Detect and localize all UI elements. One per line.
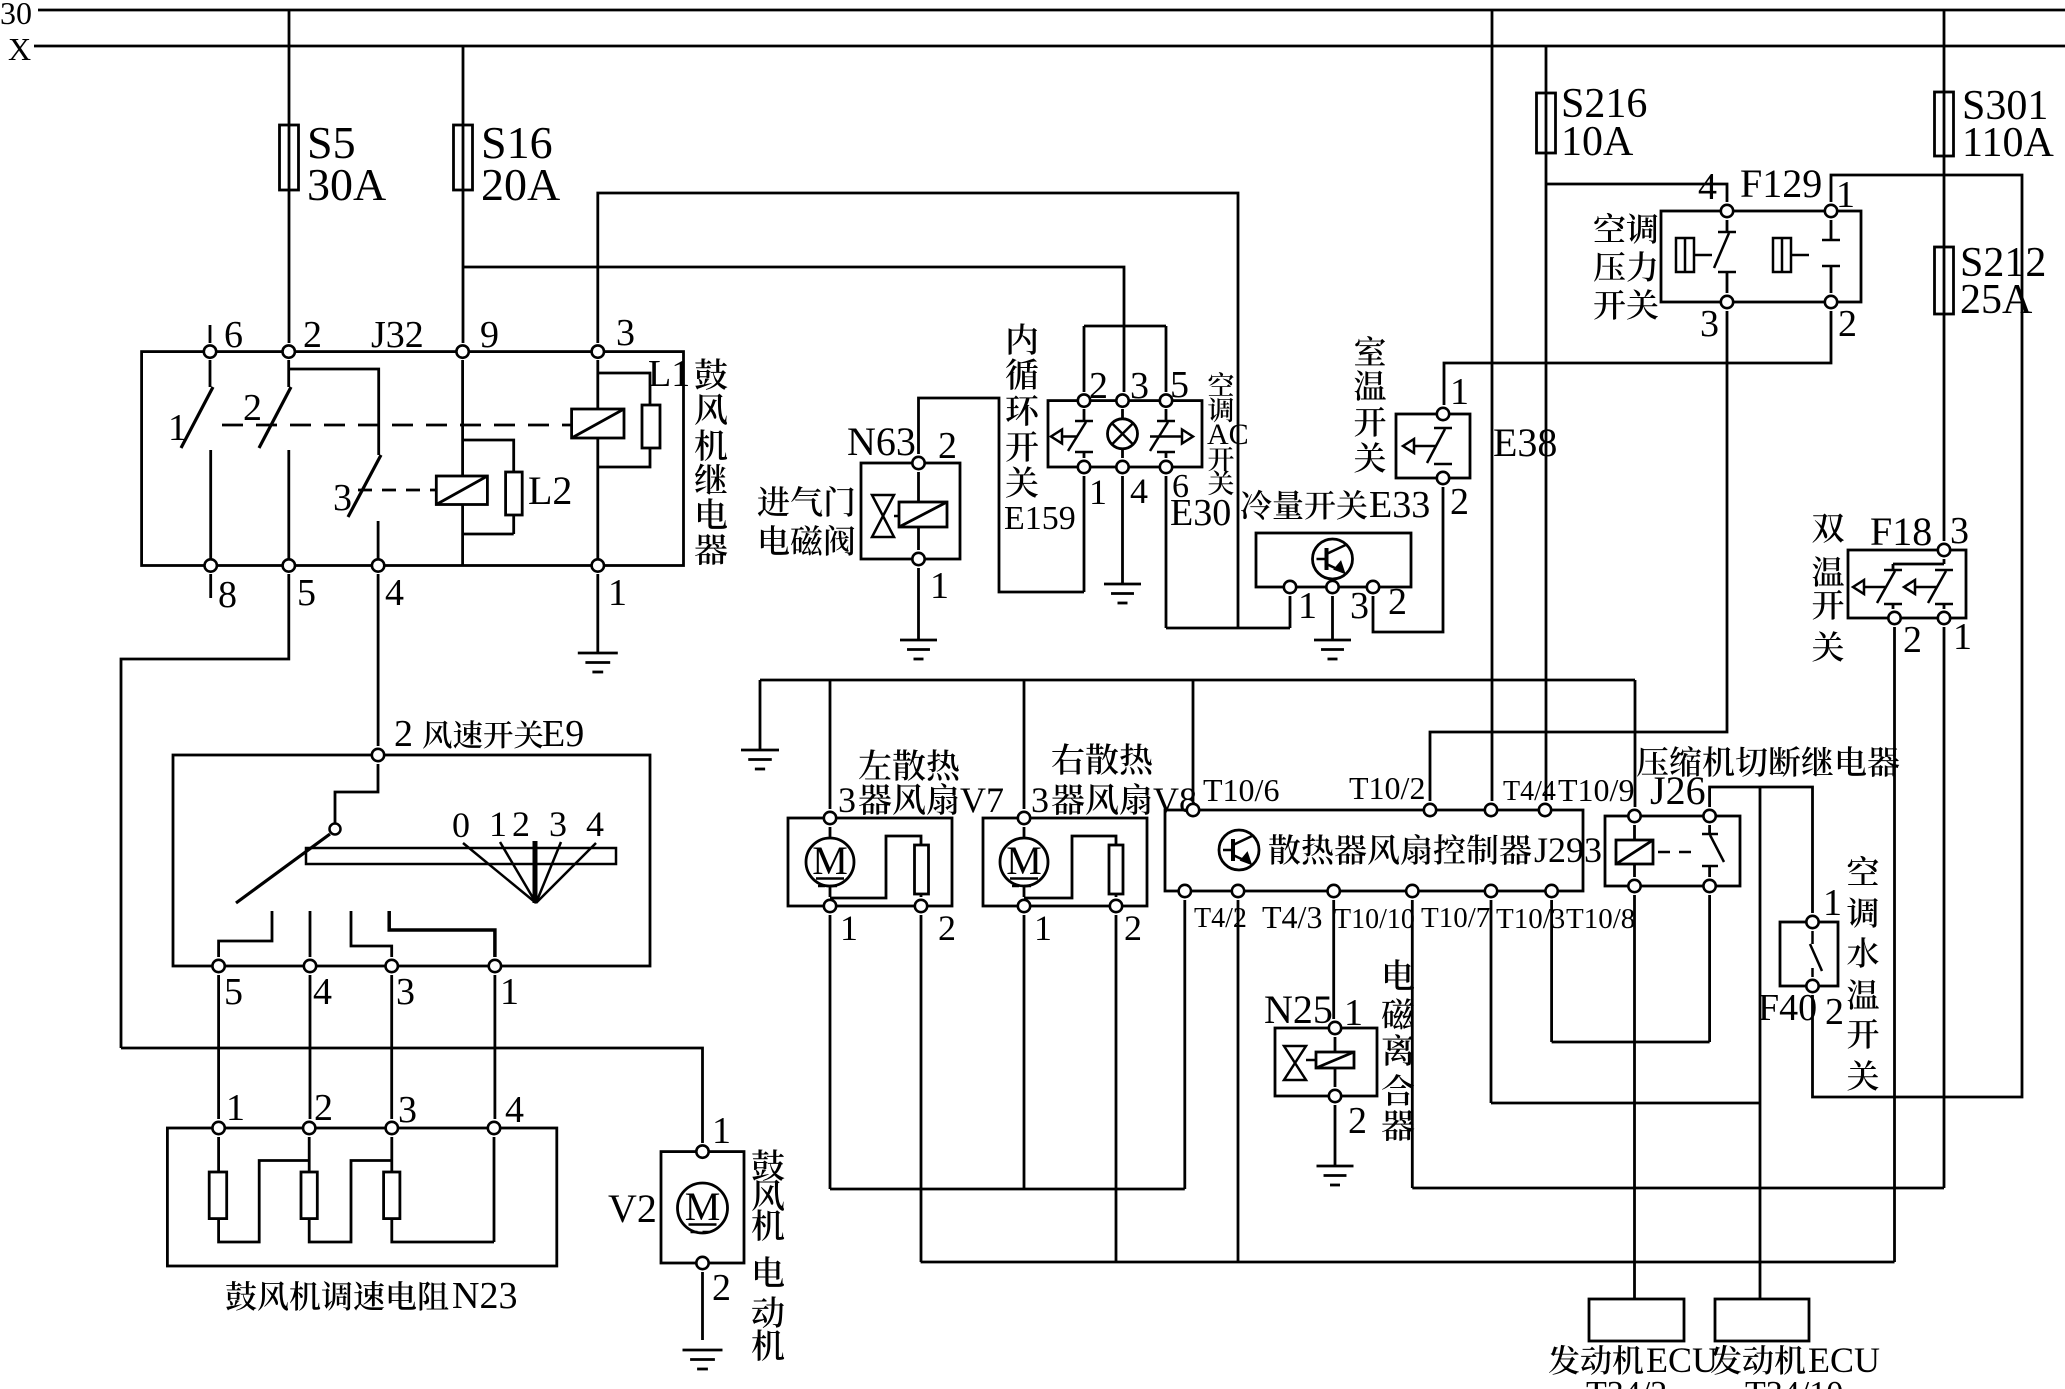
svg-text:2: 2 (314, 1087, 333, 1129)
label E30 pin 5 (1170, 364, 1189, 406)
wire F40.2-F129.1 (1813, 175, 2023, 1097)
svg-text:J26: J26 (1650, 768, 1706, 813)
wire V7.2 down (920, 915, 923, 1262)
terminal F129.4 (1721, 205, 1733, 217)
terminal F129.1 (1825, 205, 1837, 217)
relay J26 box (1605, 816, 1740, 886)
svg-text:1: 1 (1836, 174, 1855, 216)
switch symbol F18a (1853, 570, 1902, 609)
wire J32.4-E9.2 (377, 574, 380, 746)
fan V7 box (788, 818, 952, 906)
pressure switch F129 box (1661, 211, 1861, 302)
svg-text:T10/9: T10/9 (1558, 772, 1634, 808)
label N25 pin 2 (1348, 1100, 1367, 1142)
wire J26.tr-F40.1 (1710, 787, 1813, 913)
label N23 pin 2 (314, 1087, 333, 1129)
svg-text:2: 2 (1388, 581, 1407, 623)
terminal E38.2 (1437, 472, 1449, 484)
wire E38.2-E33.2 (1373, 487, 1443, 632)
wire V8.2 down (1115, 915, 1118, 1262)
svg-text:4: 4 (586, 804, 604, 844)
svg-text:T10/8: T10/8 (1566, 903, 1635, 935)
wire E9.4-N23.2 (309, 975, 312, 1119)
transistor symbol E33 (1313, 539, 1353, 579)
label N63 pin 2 (938, 425, 957, 467)
label N25 pin 1 (1344, 992, 1363, 1034)
label F129 pin 4 (1698, 166, 1717, 208)
terminal E159.4 (1116, 461, 1128, 473)
terminal N23.2 (303, 1122, 315, 1134)
wire branch-ECU2 (1759, 787, 1762, 1299)
controller J293 box (1165, 810, 1583, 891)
svg-text:0: 0 (452, 805, 470, 845)
wire V7.1 down (829, 915, 832, 1189)
wire N63.1-ground (917, 568, 920, 640)
valve symbol N25 (1284, 1046, 1316, 1080)
label E33 pin 1 (1298, 585, 1317, 627)
label F40 pin 1 (1823, 882, 1842, 924)
label T10/9 (1558, 772, 1634, 808)
label J32 (371, 314, 424, 356)
wire bus-V8 (1023, 680, 1026, 809)
svg-text:E38: E38 (1493, 420, 1557, 465)
svg-text:T10/2: T10/2 (1349, 770, 1425, 806)
label T34/10 clipped (1745, 1375, 1843, 1389)
svg-text:5: 5 (297, 572, 316, 614)
label E159 pin 3 (1130, 365, 1149, 407)
switch J32-2 (259, 360, 291, 561)
wire F18.1 down (1943, 627, 1946, 1188)
label F18 pin 3 (1950, 510, 1969, 552)
wire T10/7-F18.1 (1412, 900, 1944, 1188)
switch symbol E30 (1150, 409, 1193, 458)
svg-text:3: 3 (1031, 780, 1049, 820)
label T10/10 (1334, 904, 1415, 935)
svg-text:ECU: ECU (1808, 1340, 1880, 1380)
label E9 pin 5 (224, 971, 243, 1013)
piston symbol F129a (1676, 238, 1712, 272)
wire X-S216 (1545, 46, 1548, 801)
svg-text:3: 3 (549, 804, 567, 844)
terminal N23.3 (386, 1122, 398, 1134)
terminal J26.bl (1628, 880, 1640, 892)
label 2 fan-speed-switch E9 (394, 713, 584, 755)
terminal N23.1 (212, 1122, 224, 1134)
motor symbol V7 (806, 838, 854, 886)
svg-text:M: M (1006, 838, 1042, 883)
svg-text:T4/2: T4/2 (1194, 903, 1247, 934)
label E9 pin 1 (500, 971, 519, 1013)
lamp symbol (1108, 409, 1138, 458)
terminal T10/9 (1539, 804, 1551, 816)
wire J32.5-E9 (121, 574, 289, 1048)
svg-text:2: 2 (394, 713, 413, 755)
svg-text:1: 1 (1298, 585, 1317, 627)
terminal V8.1 (1018, 900, 1030, 912)
svg-text:F129: F129 (1740, 161, 1822, 206)
terminal T10/8 (1545, 885, 1557, 897)
relay J32 box (142, 352, 684, 566)
wire V2.2-ground (701, 1272, 704, 1340)
terminal N63.1 (912, 553, 924, 565)
svg-text:20A: 20A (481, 159, 560, 210)
label V2 pin 2 (712, 1267, 731, 1309)
label L1 (648, 353, 690, 395)
svg-text:2: 2 (1838, 303, 1857, 345)
svg-text:T10/10: T10/10 (1334, 904, 1415, 935)
label sw 1 (168, 407, 187, 449)
svg-text:2: 2 (1124, 908, 1142, 948)
label sw 3 (333, 477, 352, 519)
svg-text:10A: 10A (1561, 119, 1634, 165)
label E159 pin 1 (1089, 472, 1107, 512)
label dual temp switch (1812, 513, 1844, 661)
resistor L2 (506, 472, 523, 515)
wire L2 bottom (463, 505, 514, 566)
terminal J32.1 (592, 559, 604, 571)
terminal J32.5 (283, 559, 295, 571)
dashed link sw1-sw2-L1 (222, 424, 571, 427)
wire E30.6-node (1165, 476, 1168, 628)
label blower resistor N23 (226, 1275, 517, 1317)
label S216 10A (1561, 81, 1647, 165)
svg-text:T34/10: T34/10 (1745, 1375, 1843, 1389)
label V7 pin 1 (840, 908, 858, 948)
svg-text:2: 2 (512, 804, 530, 844)
wire L1 bottom (598, 438, 650, 561)
svg-text:9: 9 (480, 314, 499, 356)
wire E159.4-ground (1121, 476, 1124, 584)
wire E9.3-N23.3 (390, 975, 393, 1119)
fuse S301 110A (1935, 92, 1954, 156)
label N63 (847, 419, 916, 464)
svg-text:3: 3 (1950, 510, 1969, 552)
terminal J32.9 (456, 345, 468, 357)
label intake valve line2 (761, 525, 854, 556)
svg-text:1: 1 (1953, 616, 1972, 658)
dashed link J26 (1658, 851, 1700, 854)
svg-text:V2: V2 (608, 1186, 657, 1231)
wire 30-S5 (288, 10, 291, 343)
ground bus (741, 750, 779, 769)
wire T10/8-J26.br (1552, 895, 1710, 1042)
ground N25 (1317, 1166, 1354, 1185)
terminal E9.5 (212, 960, 224, 972)
svg-text:4: 4 (385, 572, 404, 614)
wire E9.1-N23.4 (493, 975, 496, 1119)
switch blade F40 (1810, 931, 1822, 977)
switch symbol E159 (1051, 409, 1093, 458)
label N25 (1264, 987, 1333, 1032)
label pin 8 (218, 574, 237, 616)
switch E159/E30 box (1048, 401, 1202, 467)
label AC water temp switch (1847, 856, 1879, 1091)
fan V8 box (983, 818, 1147, 906)
label E38 (1493, 420, 1557, 465)
label N23 pin 4 (505, 1089, 524, 1131)
wire V8.1 down (1023, 915, 1026, 1189)
svg-text:2: 2 (1903, 619, 1922, 661)
svg-text:6: 6 (224, 314, 243, 356)
terminal E33.1 (1284, 581, 1296, 593)
terminal J32.8 (205, 559, 217, 571)
terminal T4/4 (1485, 804, 1497, 816)
label X (8, 31, 31, 67)
dashed link sw3-L2 (358, 489, 436, 492)
switch E9 box (173, 755, 650, 966)
wire F18 internal (1893, 559, 1944, 570)
wire E9.5-N23.1 (217, 975, 220, 1119)
wire E9 wiper feed (335, 764, 378, 823)
piston symbol F129b (1773, 238, 1809, 272)
terminal E33.3 (1326, 581, 1338, 593)
label right fan V8 line1 (1052, 743, 1152, 775)
fuse S5 30A (280, 125, 299, 190)
svg-text:L2: L2 (528, 468, 572, 513)
svg-text:4: 4 (1130, 471, 1148, 511)
wire T10/3-J26.bl (1491, 900, 1760, 1103)
switch symbol E38 (1403, 428, 1452, 464)
label E159 pin 2 (1089, 365, 1108, 407)
wire V8 resistor link (1024, 836, 1116, 898)
svg-text:1: 1 (930, 565, 949, 607)
label pin 5 (297, 572, 316, 614)
switch F40 box (1780, 922, 1838, 986)
svg-text:1: 1 (1034, 908, 1052, 948)
wire R1-N23.2 (219, 1161, 310, 1243)
net 30 bus (38, 9, 2065, 12)
wire L2 top link (463, 440, 514, 472)
label pin 3 (616, 312, 635, 354)
wire E33.1-node (1166, 596, 1290, 628)
svg-text:M: M (812, 838, 848, 883)
svg-text:2: 2 (938, 908, 956, 948)
label F18 pin 2 (1903, 619, 1922, 661)
wiper blade (236, 834, 330, 903)
terminal F40.1 (1806, 916, 1818, 928)
svg-text:2: 2 (243, 387, 262, 429)
svg-text:E9: E9 (542, 713, 584, 755)
label V8 pin 1 (1034, 908, 1052, 948)
fuse S216 10A (1537, 93, 1556, 153)
svg-text:2: 2 (938, 425, 957, 467)
blower motor V2 box (661, 1152, 744, 1263)
svg-text:5: 5 (224, 971, 243, 1013)
label cooling switch E33 (1241, 484, 1430, 526)
label engine ECU 1 (1549, 1340, 1718, 1380)
switch F129a (1714, 220, 1736, 293)
wire J32.3-node (598, 193, 1238, 628)
svg-text:1: 1 (1450, 371, 1469, 413)
label F129 pin 1 (1836, 174, 1855, 216)
wiper track (306, 848, 616, 864)
wire bus-ground (759, 680, 762, 750)
terminal V7.1 (824, 900, 836, 912)
motor symbol V2 (678, 1183, 728, 1233)
label N63 pin 1 (930, 565, 949, 607)
svg-text:3: 3 (333, 477, 352, 519)
label clutch (1382, 959, 1414, 1141)
ECU box 1 (1589, 1299, 1684, 1341)
label engine ECU 2 (1711, 1340, 1880, 1380)
svg-text:X: X (8, 31, 31, 67)
relay coil J26 (1616, 825, 1653, 877)
svg-text:2: 2 (1089, 365, 1108, 407)
label T4/4 (1503, 776, 1556, 807)
switch E33 box (1256, 533, 1411, 587)
net ground bus (760, 679, 1635, 682)
terminal T4/2 (1179, 885, 1191, 897)
terminal N25.2 (1329, 1090, 1341, 1102)
wire bus-J26 coil (1634, 680, 1637, 807)
wire 30-T4/4 (1491, 10, 1494, 801)
net X bus (34, 45, 2065, 48)
terminal E9.3 (386, 960, 398, 972)
terminal J32.4 (372, 559, 384, 571)
svg-text:N25: N25 (1264, 987, 1333, 1032)
terminal E30.6 (1160, 461, 1172, 473)
label T10/7 (1421, 902, 1490, 934)
label intake valve line1 (758, 486, 854, 517)
svg-text:T10/6: T10/6 (1203, 772, 1279, 808)
wire N23.3-R3 (390, 1137, 393, 1172)
label V8 pin 2 (1124, 908, 1142, 948)
svg-text:E159: E159 (1004, 500, 1076, 537)
selector fan lines (463, 841, 596, 903)
wire N25 internal (1334, 1037, 1337, 1087)
label T10/8 (1566, 903, 1635, 935)
wire J32.2-sw3 (290, 369, 379, 455)
terminal F40.2 (1806, 980, 1818, 992)
resistor V8 (1109, 845, 1123, 894)
terminal E159.3 (1116, 394, 1128, 406)
switch J26 (1702, 825, 1724, 877)
terminal J26.tr (1703, 810, 1715, 822)
svg-text:M: M (685, 1184, 721, 1229)
svg-text:110A: 110A (1962, 120, 2054, 166)
terminal V8.2 (1110, 900, 1122, 912)
label E30 pin 6 (1172, 468, 1189, 505)
label radiator fan controller J293 (1269, 830, 1602, 870)
contact 3 stub (351, 911, 392, 957)
wire T10/10-N25.1 (1332, 900, 1335, 1019)
wire N23.1-R1 (217, 1137, 220, 1172)
wire S216-F129.4 (1546, 184, 1727, 202)
wire V7 motor bottom (829, 886, 832, 897)
resistor V7 (915, 845, 929, 894)
label pin 6 (224, 314, 243, 356)
wire V7 motor top (829, 827, 832, 838)
label F18 (1870, 509, 1932, 554)
svg-text:2: 2 (712, 1267, 731, 1309)
svg-text:1: 1 (226, 1087, 245, 1129)
label pin 2 (303, 314, 322, 356)
wire bridge E159.2-E30.5 (1084, 326, 1166, 392)
wire E159.1-N63.2 (1083, 476, 1086, 592)
resistor N23-R3 (384, 1172, 400, 1219)
terminal T10/3 (1485, 885, 1497, 897)
wire V8 motor top (1023, 827, 1026, 838)
svg-text:ECU: ECU (1646, 1340, 1718, 1380)
label E33 pin 2 (1388, 581, 1407, 623)
resistor L1 (642, 405, 660, 448)
ground E159.4 (1104, 584, 1141, 603)
ground N63 (900, 640, 937, 659)
terminal T10/7 (1406, 885, 1418, 897)
wire F129.2-E38.1 (1444, 311, 1831, 405)
ground E33 (1314, 640, 1351, 659)
svg-text:2: 2 (1825, 991, 1844, 1033)
resistor pack N23 box (167, 1128, 556, 1266)
ECU box 2 (1715, 1299, 1809, 1341)
wire F129.3-T10/2 (1430, 311, 1727, 801)
terminal J26.br (1703, 880, 1715, 892)
ground J32.1 (578, 653, 618, 672)
svg-text:F40: F40 (1758, 987, 1817, 1029)
label AC switch col (1207, 372, 1249, 495)
label N23 pin 3 (398, 1089, 417, 1131)
terminal E159.1 (1078, 461, 1090, 473)
svg-text:T4/3: T4/3 (1262, 899, 1322, 935)
label J26 (1650, 768, 1706, 813)
svg-text:3: 3 (1130, 365, 1149, 407)
label pin 4 (385, 572, 404, 614)
terminal E33.2 (1367, 581, 1379, 593)
label S16 20A (481, 117, 560, 210)
switch F18 box (1848, 550, 1966, 618)
svg-text:3: 3 (1350, 585, 1369, 627)
svg-text:8: 8 (218, 574, 237, 616)
svg-text:T10/7: T10/7 (1421, 902, 1490, 934)
terminal T10/2 (1424, 804, 1436, 816)
contact 5 stub (219, 911, 272, 957)
terminal J32.2 (283, 345, 295, 357)
terminal J26.tl (1628, 810, 1640, 822)
wire E33.3-ground (1331, 596, 1334, 640)
svg-text:3: 3 (396, 971, 415, 1013)
label T10/3 (1496, 903, 1565, 935)
label E38 pin 1 (1450, 371, 1469, 413)
valve symbol N63 (872, 495, 899, 537)
label E9 pin 3 (396, 971, 415, 1013)
terminal J32.6 (204, 345, 216, 357)
valve N63 box (861, 463, 960, 559)
svg-text:N63: N63 (847, 419, 916, 464)
clutch N25 box (1275, 1028, 1377, 1096)
svg-text:T10/3: T10/3 (1496, 903, 1565, 935)
label E159 (1004, 500, 1076, 537)
svg-text:T34/2: T34/2 (1586, 1375, 1667, 1389)
svg-text:J293: J293 (1534, 830, 1602, 870)
contact 4 stub (309, 911, 312, 957)
svg-text:1: 1 (489, 804, 507, 844)
label T10/6 (1203, 772, 1279, 808)
label E159 pin 4 (1130, 471, 1148, 511)
wire F18.2 down (1893, 627, 1896, 1262)
label pin 1 (608, 572, 627, 614)
label E30 (1170, 492, 1231, 534)
switch E38 box (1396, 414, 1470, 478)
svg-text:F18: F18 (1870, 509, 1932, 554)
label T4/2 (1194, 903, 1247, 934)
svg-text:E30: E30 (1170, 492, 1231, 534)
contact F129b (1822, 220, 1840, 293)
label blower relay (695, 358, 727, 565)
wire X-S16 (462, 46, 465, 343)
wire bus-T10/6 (1192, 680, 1195, 801)
label F129 pin 3 (1700, 303, 1719, 345)
svg-text:3: 3 (398, 1089, 417, 1131)
